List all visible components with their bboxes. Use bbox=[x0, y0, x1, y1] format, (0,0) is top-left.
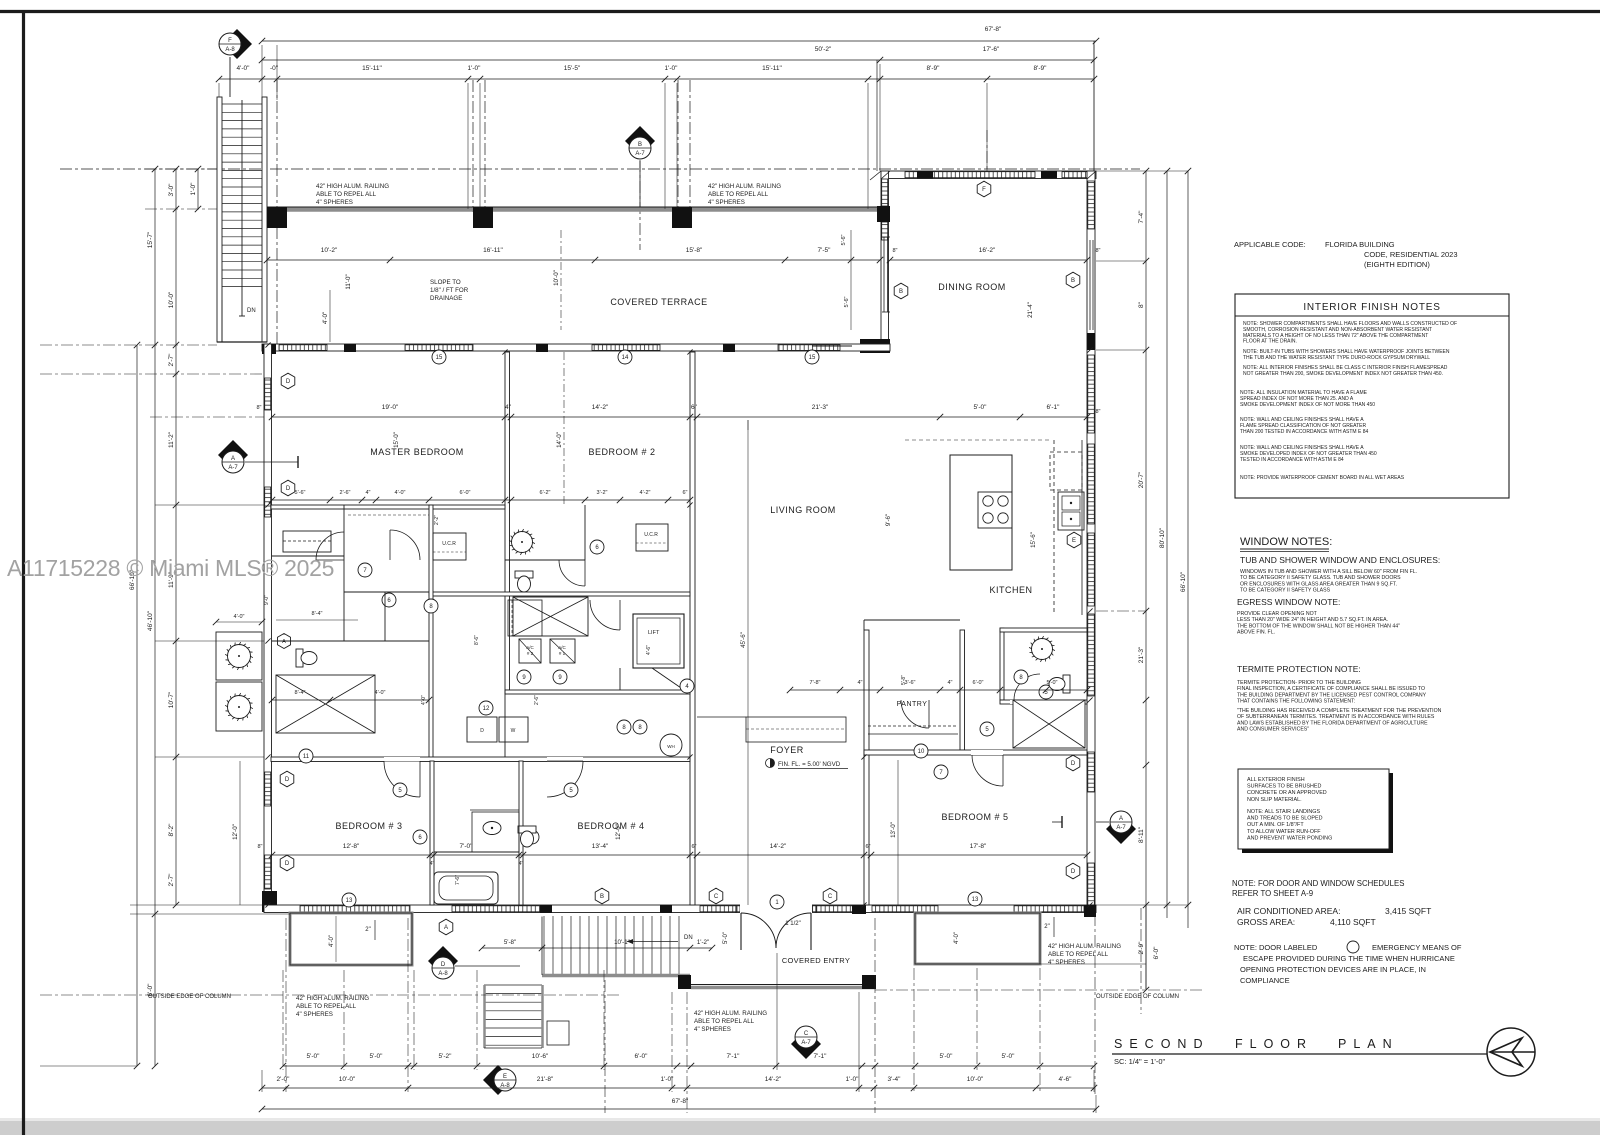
svg-text:42" HIGH ALUM. RAILING: 42" HIGH ALUM. RAILING bbox=[708, 183, 781, 190]
svg-text:67'-8": 67'-8" bbox=[672, 1098, 689, 1105]
living-kitchen counter return bbox=[863, 620, 865, 630]
svg-text:SURFACES TO BE BRUSHED: SURFACES TO BE BRUSHED bbox=[1247, 784, 1321, 790]
railing post 1 bbox=[267, 207, 287, 228]
svg-text:4,110 SQFT: 4,110 SQFT bbox=[1330, 917, 1376, 927]
svg-text:PLAN: PLAN bbox=[1338, 1037, 1399, 1051]
svg-text:TO ALLOW WATER RUN-OFF: TO ALLOW WATER RUN-OFF bbox=[1247, 829, 1321, 835]
svg-text:OUT A MIN. OF 1/8"/FT: OUT A MIN. OF 1/8"/FT bbox=[1247, 822, 1304, 828]
wall master/bedroom2 vertical bbox=[505, 352, 510, 690]
svg-text:8": 8" bbox=[1095, 248, 1100, 254]
right wall window thin section bbox=[1089, 240, 1091, 330]
lift shaft bbox=[633, 614, 684, 668]
svg-text:A/C: A/C bbox=[558, 645, 566, 650]
svg-text:8'-9": 8'-9" bbox=[1034, 65, 1048, 72]
kitchen window tag hex E bbox=[1067, 532, 1081, 548]
svg-text:15'-11": 15'-11" bbox=[362, 65, 382, 72]
svg-text:8": 8" bbox=[1138, 301, 1145, 308]
fin fl note bbox=[766, 759, 775, 768]
ucr closet 1 bbox=[433, 533, 466, 560]
svg-text:B: B bbox=[899, 289, 903, 295]
svg-text:1'-0": 1'-0" bbox=[846, 1076, 860, 1083]
wall bedroom2/living vertical bbox=[690, 352, 695, 905]
svg-text:PANTRY: PANTRY bbox=[897, 701, 928, 708]
svg-text:14'-2": 14'-2" bbox=[770, 843, 787, 850]
wall pantry/bed5 horizontal bbox=[864, 750, 1087, 755]
svg-text:1 1/2": 1 1/2" bbox=[785, 921, 800, 927]
svg-text:BEDROOM # 5: BEDROOM # 5 bbox=[941, 812, 1008, 822]
door arc bedroom 3 bbox=[384, 761, 420, 797]
svg-text:10'-0": 10'-0" bbox=[553, 270, 560, 286]
bath2 partition wall bbox=[584, 505, 586, 560]
bath2 toilet bbox=[515, 571, 533, 592]
bottom stair flight1 stringer bbox=[542, 974, 690, 978]
fans dim 4-0 bbox=[216, 621, 262, 623]
north arrow symbol bbox=[1487, 1028, 1535, 1076]
svg-text:B: B bbox=[638, 142, 642, 148]
svg-text:A-7: A-7 bbox=[635, 151, 645, 157]
svg-text:DN: DN bbox=[247, 308, 256, 314]
bed5 bath toilet bbox=[1049, 675, 1070, 693]
svg-text:12'-0": 12'-0" bbox=[615, 824, 622, 840]
svg-text:EMERGENCY MEANS OF: EMERGENCY MEANS OF bbox=[1372, 943, 1462, 952]
right wall black post bbox=[1087, 333, 1095, 350]
svg-text:8'-4": 8'-4" bbox=[295, 690, 306, 696]
right horizontal extension lines bbox=[1096, 170, 1188, 172]
svg-text:ABOVE FIN. FL.: ABOVE FIN. FL. bbox=[1237, 630, 1275, 636]
master suite door arc bbox=[316, 532, 344, 560]
svg-text:8": 8" bbox=[257, 844, 262, 850]
svg-text:# 1: # 1 bbox=[559, 651, 566, 656]
svg-text:MASTER BEDROOM: MASTER BEDROOM bbox=[370, 447, 464, 457]
svg-text:8'-6": 8'-6" bbox=[474, 635, 480, 645]
bath2 sink counter bbox=[508, 600, 542, 636]
wall bed5 bath horizontal top bbox=[1000, 628, 1087, 632]
svg-text:4'-0": 4'-0" bbox=[322, 312, 329, 324]
svg-text:4'-0": 4'-0" bbox=[237, 65, 251, 72]
secmark leader A right bbox=[1096, 821, 1109, 823]
svg-text:D: D bbox=[441, 962, 446, 968]
svg-text:A-7: A-7 bbox=[801, 1040, 811, 1046]
svg-text:6": 6" bbox=[865, 844, 870, 850]
svg-text:SECOND: SECOND bbox=[1114, 1037, 1209, 1051]
svg-text:7'-5": 7'-5" bbox=[818, 247, 832, 254]
covered entry door opening bbox=[740, 904, 812, 913]
stair bottom landing wall bbox=[217, 341, 267, 343]
svg-text:5'-0": 5'-0" bbox=[940, 1053, 954, 1060]
entry door tag circle 1 bbox=[770, 895, 784, 909]
svg-text:66'-10": 66'-10" bbox=[1180, 571, 1187, 592]
door arc bedroom 5 bbox=[972, 755, 1003, 786]
svg-text:TERMITE PROTECTION NOTE:: TERMITE PROTECTION NOTE: bbox=[1237, 664, 1361, 674]
grid centerline vertical x1094 bbox=[1093, 41, 1095, 171]
svg-text:4'-0": 4'-0" bbox=[395, 490, 406, 496]
svg-text:7'-1": 7'-1" bbox=[814, 1053, 828, 1060]
section mark C A-7 bottom bbox=[791, 1026, 821, 1059]
door arc hall lift bbox=[590, 600, 620, 630]
wall master bottom horizontal bbox=[271, 505, 505, 509]
wall bath middle horizontal bbox=[429, 592, 690, 596]
kitchen fridge dashed bbox=[1050, 452, 1082, 490]
svg-text:CODE, RESIDENTIAL 2023: CODE, RESIDENTIAL 2023 bbox=[1364, 250, 1458, 259]
svg-text:DN: DN bbox=[684, 935, 693, 941]
svg-text:8": 8" bbox=[892, 248, 897, 254]
svg-text:F: F bbox=[982, 187, 986, 193]
bottom wall posts bbox=[540, 905, 552, 913]
svg-text:THE BUILDING DEPARTMENT BY THE: THE BUILDING DEPARTMENT BY THE LICENSED … bbox=[1237, 692, 1427, 698]
bottom exterior wall bbox=[264, 905, 1096, 913]
svg-text:ABLE TO REPEL ALL: ABLE TO REPEL ALL bbox=[296, 1003, 357, 1010]
wall closet vertical x429 bbox=[429, 505, 433, 760]
circle tag 5 bed5 bbox=[1039, 685, 1053, 699]
svg-text:14'-2": 14'-2" bbox=[592, 404, 609, 411]
svg-text:ABLE TO REPEL ALL: ABLE TO REPEL ALL bbox=[708, 191, 769, 198]
svg-text:3'-2": 3'-2" bbox=[597, 490, 608, 496]
bath2 closet xbox bbox=[513, 597, 588, 636]
svg-text:5'-2": 5'-2" bbox=[439, 1053, 453, 1060]
bath34 sink bbox=[483, 822, 501, 835]
svg-text:4'-0": 4'-0" bbox=[234, 614, 245, 620]
left extension lines to wall bbox=[155, 504, 264, 506]
svg-text:8": 8" bbox=[256, 405, 261, 411]
svg-text:6'-0": 6'-0" bbox=[973, 680, 984, 686]
svg-text:A-7: A-7 bbox=[1116, 825, 1126, 831]
svg-text:"THE BUILDING HAS RECEIVED A C: "THE BUILDING HAS RECEIVED A COMPLETE TR… bbox=[1237, 708, 1442, 714]
circle tag 10 bbox=[914, 744, 928, 758]
circle tag 5 bed4 bbox=[564, 783, 578, 797]
svg-text:1'-0": 1'-0" bbox=[665, 65, 679, 72]
svg-text:21'-3": 21'-3" bbox=[812, 404, 829, 411]
sheet border top bbox=[0, 10, 1600, 13]
svg-text:3'-0": 3'-0" bbox=[168, 183, 175, 197]
svg-text:10'-0": 10'-0" bbox=[339, 1076, 356, 1083]
svg-text:F: F bbox=[228, 38, 232, 44]
svg-text:FLOOR: FLOOR bbox=[1235, 1037, 1313, 1051]
right dim 6-0 segment bbox=[1145, 905, 1147, 990]
svg-text:LIVING ROOM: LIVING ROOM bbox=[770, 505, 836, 515]
svg-text:4": 4" bbox=[430, 861, 435, 867]
svg-text:NOTE: DOOR LABELED: NOTE: DOOR LABELED bbox=[1234, 943, 1318, 952]
pantry shelves bbox=[868, 725, 958, 727]
terrace dim row bbox=[267, 259, 880, 261]
kitchen island bbox=[950, 455, 1012, 570]
svg-text:B: B bbox=[1071, 278, 1075, 284]
svg-text:2'-9": 2'-9" bbox=[1138, 941, 1145, 955]
svg-text:BEDROOM # 3: BEDROOM # 3 bbox=[335, 821, 402, 831]
svg-text:THAT CONTAINS THE FOLLOWING ST: THAT CONTAINS THE FOLLOWING STATEMENT: bbox=[1237, 699, 1355, 705]
svg-text:6'-0": 6'-0" bbox=[1153, 946, 1160, 960]
svg-text:5'-6": 5'-6" bbox=[844, 296, 850, 307]
door arc master bbox=[390, 530, 420, 560]
flight2 stringers bbox=[483, 985, 486, 1048]
svg-text:4" SPHERES: 4" SPHERES bbox=[708, 199, 745, 206]
svg-text:FINAL INSPECTION, A CERTIFICAT: FINAL INSPECTION, A CERTIFICATE OF COMPL… bbox=[1237, 686, 1425, 692]
svg-text:AND TREADS TO BE SLOPED: AND TREADS TO BE SLOPED bbox=[1247, 816, 1323, 822]
svg-text:BEDROOM # 4: BEDROOM # 4 bbox=[577, 821, 644, 831]
exterior finish shadow box bbox=[1242, 773, 1393, 853]
left dim col x137 bbox=[136, 345, 138, 1066]
door arc bedroom 4 bbox=[547, 761, 583, 797]
svg-text:50'-2": 50'-2" bbox=[815, 46, 832, 53]
svg-text:4'-0": 4'-0" bbox=[375, 690, 386, 696]
grid centerline vertical B x640 bbox=[639, 160, 641, 250]
svg-text:THE TUB AND THE WATER RESISTAN: THE TUB AND THE WATER RESISTANT TYPE DUR… bbox=[1243, 355, 1430, 361]
svg-text:5'-0": 5'-0" bbox=[723, 932, 729, 944]
svg-text:AND PREVENT WATER PONDING: AND PREVENT WATER PONDING bbox=[1247, 835, 1332, 841]
svg-text:CONCRETE OR AN APPROVED: CONCRETE OR AN APPROVED bbox=[1247, 790, 1327, 796]
secmark leader B bbox=[639, 161, 641, 207]
svg-text:17'-6": 17'-6" bbox=[983, 46, 1000, 53]
bed5 bath fan bbox=[1029, 636, 1055, 662]
circle tag 9 right bbox=[553, 670, 567, 684]
master suite closet wall vertical bbox=[343, 505, 345, 641]
scan bottom gray band bbox=[0, 1121, 1600, 1135]
small dim row y690 segment bbox=[790, 689, 1087, 691]
svg-text:14: 14 bbox=[622, 355, 629, 361]
right dim col x1146 bbox=[1145, 171, 1147, 990]
foyer closet partition bbox=[697, 716, 746, 718]
bed5 closet xbox bbox=[1013, 700, 1085, 748]
svg-text:5'-0": 5'-0" bbox=[974, 404, 988, 411]
svg-text:10: 10 bbox=[918, 749, 925, 755]
secmark leader A left bbox=[245, 461, 298, 463]
svg-text:42" HIGH ALUM. RAILING: 42" HIGH ALUM. RAILING bbox=[1048, 943, 1121, 950]
dining corner miter right bbox=[1087, 171, 1096, 179]
kitchen sink unit bbox=[1058, 492, 1084, 530]
svg-text:SC: 1/4" = 1'-0": SC: 1/4" = 1'-0" bbox=[1114, 1057, 1165, 1066]
svg-text:LESS THAN 20" WIDE 24" IN HEIG: LESS THAN 20" WIDE 24" IN HEIGHT AND 5.7… bbox=[1237, 617, 1388, 623]
svg-text:42" HIGH ALUM. RAILING: 42" HIGH ALUM. RAILING bbox=[296, 995, 369, 1002]
svg-text:2'-0": 2'-0" bbox=[277, 1076, 291, 1083]
svg-text:D: D bbox=[286, 486, 291, 492]
svg-text:7'-0": 7'-0" bbox=[460, 843, 474, 850]
bottom dim row 3 bbox=[262, 1108, 1096, 1110]
svg-text:D: D bbox=[480, 728, 484, 734]
svg-text:A/C: A/C bbox=[526, 645, 534, 650]
exterior AC fan unit 2 bbox=[216, 682, 262, 731]
svg-text:D: D bbox=[1071, 761, 1076, 767]
svg-text:1'-0": 1'-0" bbox=[190, 182, 197, 196]
circle tag 11 bbox=[299, 749, 313, 763]
kitchen counter dashed bbox=[1053, 440, 1055, 615]
svg-text:17'-8": 17'-8" bbox=[970, 843, 987, 850]
svg-text:D: D bbox=[1071, 869, 1076, 875]
dim row hall y757 bbox=[272, 699, 429, 701]
svg-text:4'-0": 4'-0" bbox=[329, 935, 335, 947]
top dimension row 50-2 17-6 bbox=[262, 59, 1094, 61]
svg-text:15'-0": 15'-0" bbox=[393, 432, 400, 448]
bath2 door arc bbox=[559, 560, 585, 586]
svg-text:16'-11": 16'-11" bbox=[483, 247, 503, 254]
svg-text:W: W bbox=[511, 728, 516, 734]
svg-text:LIFT: LIFT bbox=[648, 630, 660, 636]
svg-text:5'-0": 5'-0" bbox=[370, 1053, 384, 1060]
window tag 15 left bbox=[432, 350, 446, 364]
svg-text:E: E bbox=[503, 1074, 507, 1080]
svg-text:EGRESS WINDOW NOTE:: EGRESS WINDOW NOTE: bbox=[1237, 597, 1340, 607]
svg-text:15'-6": 15'-6" bbox=[1030, 532, 1037, 548]
left dim col x198 bbox=[197, 169, 199, 209]
exterior stair treads bbox=[222, 103, 262, 105]
svg-text:4": 4" bbox=[519, 861, 524, 867]
stair landing box bbox=[547, 1021, 569, 1045]
circle tag 8 bed4 bbox=[617, 720, 631, 734]
circle tag 7 bbox=[358, 563, 372, 577]
top dim extension lines bbox=[261, 45, 263, 100]
circle tag 6 a bbox=[382, 593, 396, 607]
svg-text:1'-0": 1'-0" bbox=[468, 65, 482, 72]
svg-text:4'-6": 4'-6" bbox=[1059, 1076, 1073, 1083]
svg-text:4'-2": 4'-2" bbox=[640, 490, 651, 496]
svg-text:KITCHEN: KITCHEN bbox=[989, 585, 1032, 595]
svg-text:OUTSIDE EDGE OF COLUMN: OUTSIDE EDGE OF COLUMN bbox=[148, 994, 231, 1000]
circle tag 6 b bbox=[590, 540, 604, 554]
svg-text:WINDOWS IN TUB AND SHOWER WITH: WINDOWS IN TUB AND SHOWER WITH A SILL BE… bbox=[1240, 569, 1417, 575]
kitchen upper dash cabinets bbox=[905, 439, 1050, 441]
svg-text:13'-0": 13'-0" bbox=[890, 822, 897, 838]
svg-text:AND LAWS ESTABLISHED BY THE FL: AND LAWS ESTABLISHED BY THE FLORIDA DEPA… bbox=[1237, 720, 1428, 726]
left wall window tags bbox=[281, 373, 295, 389]
svg-text:13: 13 bbox=[972, 897, 979, 903]
svg-text:SLOPE TO: SLOPE TO bbox=[430, 279, 461, 286]
bottom extension verticals bbox=[282, 970, 284, 1070]
svg-text:TESTED IN ACCORDANCE WITH ASTM: TESTED IN ACCORDANCE WITH ASTM E 84 bbox=[1240, 457, 1344, 463]
stair newel post black bbox=[678, 975, 691, 989]
svg-text:A: A bbox=[1119, 816, 1123, 822]
master toilet room wall bbox=[344, 591, 429, 593]
svg-text:11'-0": 11'-0" bbox=[345, 274, 352, 289]
grid centerline vertical x987 bbox=[986, 130, 988, 171]
svg-text:6": 6" bbox=[682, 490, 687, 496]
svg-text:FIN. FL. = 5.00' NGVD: FIN. FL. = 5.00' NGVD bbox=[778, 761, 841, 768]
svg-text:APPLICABLE CODE:: APPLICABLE CODE: bbox=[1234, 240, 1306, 249]
right exterior wall bbox=[1087, 171, 1095, 912]
entry railing post right bbox=[862, 975, 876, 989]
wall foyer/bed5 vertical bbox=[864, 630, 869, 905]
circle tag 6 c bbox=[413, 830, 427, 844]
right wall window tags bbox=[1066, 755, 1080, 771]
svg-text:A: A bbox=[231, 456, 235, 462]
svg-text:15: 15 bbox=[809, 355, 816, 361]
bedroom34 dim row bbox=[272, 854, 1087, 856]
svg-text:4" SPHERES: 4" SPHERES bbox=[296, 1011, 333, 1018]
svg-text:6'-1": 6'-1" bbox=[1047, 404, 1061, 411]
svg-text:NOT GREATER THAN 200, SMOKE DE: NOT GREATER THAN 200, SMOKE DEVELOPMENT … bbox=[1243, 371, 1443, 377]
dining top wall post right bbox=[1041, 171, 1057, 179]
svg-text:80'-10": 80'-10" bbox=[1159, 527, 1166, 548]
svg-text:NOTE: PROVIDE WATERPROOF CEME: NOTE: PROVIDE WATERPROOF CEMENT BOARD IN… bbox=[1240, 475, 1405, 481]
svg-text:BEDROOM # 2: BEDROOM # 2 bbox=[588, 447, 655, 457]
svg-text:C: C bbox=[828, 894, 833, 900]
grid centerline vertical x678 bbox=[677, 80, 679, 212]
left dim col x155 bbox=[154, 169, 156, 1066]
secmark leader F bbox=[229, 57, 231, 97]
svg-text:2": 2" bbox=[1044, 924, 1049, 930]
svg-text:FLORIDA BUILDING: FLORIDA BUILDING bbox=[1325, 240, 1395, 249]
circle tag 12 bbox=[479, 701, 493, 715]
svg-text:14'-0": 14'-0" bbox=[556, 432, 563, 448]
circle tag 5 pantry bbox=[980, 722, 994, 736]
svg-text:67'-8": 67'-8" bbox=[985, 26, 1002, 33]
svg-text:D: D bbox=[285, 861, 290, 867]
svg-text:14'-2": 14'-2" bbox=[765, 1076, 782, 1083]
svg-text:4": 4" bbox=[947, 680, 952, 686]
svg-text:7'-8": 7'-8" bbox=[810, 680, 821, 686]
dining corner miter left bbox=[881, 171, 890, 179]
svg-text:ALL EXTERIOR FINISH: ALL EXTERIOR FINISH bbox=[1247, 777, 1305, 783]
svg-text:ABLE TO REPEL ALL: ABLE TO REPEL ALL bbox=[694, 1018, 755, 1025]
circle tag 8 mid bbox=[424, 599, 438, 613]
wall bed5 bath vertical bbox=[1000, 628, 1004, 700]
svg-text:15: 15 bbox=[436, 355, 443, 361]
svg-text:REFER TO SHEET A-9: REFER TO SHEET A-9 bbox=[1232, 889, 1313, 898]
svg-text:15'-5": 15'-5" bbox=[564, 65, 581, 72]
kitchen stove bbox=[978, 492, 1012, 528]
svg-text:A-7: A-7 bbox=[228, 465, 238, 471]
circle tag 4 bbox=[680, 679, 694, 693]
grid centerline F horizontal bbox=[60, 168, 1140, 170]
svg-text:7'-6": 7'-6" bbox=[455, 875, 461, 885]
left balcony bbox=[290, 913, 412, 965]
svg-text:9'-6": 9'-6" bbox=[885, 514, 892, 526]
dining room bottom-left corner post bbox=[860, 339, 890, 353]
svg-text:21'-8": 21'-8" bbox=[537, 1076, 554, 1083]
svg-text:2": 2" bbox=[365, 927, 370, 933]
svg-text:6": 6" bbox=[691, 404, 698, 411]
svg-text:10'-0": 10'-0" bbox=[168, 291, 175, 308]
wall bath tub alcove bbox=[434, 851, 519, 853]
bath34 sink counter bbox=[472, 812, 519, 852]
railing post 3 bbox=[672, 207, 692, 228]
svg-text:4" SPHERES: 4" SPHERES bbox=[1048, 959, 1085, 966]
svg-text:16'-2": 16'-2" bbox=[979, 247, 996, 254]
svg-text:15'-8": 15'-8" bbox=[686, 247, 703, 254]
svg-text:42" HIGH ALUM. RAILING: 42" HIGH ALUM. RAILING bbox=[316, 183, 389, 190]
svg-text:TUB AND SHOWER WINDOW AND ENCL: TUB AND SHOWER WINDOW AND ENCLOSURES: bbox=[1240, 555, 1440, 565]
svg-text:7'-4": 7'-4" bbox=[1138, 210, 1145, 224]
svg-text:6'-0": 6'-0" bbox=[460, 490, 471, 496]
svg-text:2'-6": 2'-6" bbox=[340, 490, 351, 496]
outside edge of column note left bbox=[40, 994, 620, 996]
svg-text:8'-11": 8'-11" bbox=[1138, 826, 1145, 843]
svg-text:2'-7": 2'-7" bbox=[168, 873, 175, 887]
bedroom north wall posts bbox=[262, 344, 276, 354]
svg-text:D: D bbox=[286, 379, 291, 385]
svg-text:5'-0": 5'-0" bbox=[1002, 1053, 1016, 1060]
svg-text:TO BE CATEGORY II SAFETY GLASS: TO BE CATEGORY II SAFETY GLASS. TUB AND … bbox=[1240, 575, 1401, 581]
sheet border left bbox=[22, 10, 25, 1135]
right dim col x1188 bbox=[1187, 171, 1189, 905]
wall hall horizontal y690 bbox=[505, 690, 690, 694]
master bath tag hex A bbox=[278, 634, 291, 649]
grid centerline vertical x485 bbox=[484, 80, 486, 212]
svg-text:DRAINAGE: DRAINAGE bbox=[430, 295, 462, 302]
bedroom north wall bbox=[262, 344, 890, 351]
svg-text:AIR CONDITIONED AREA:: AIR CONDITIONED AREA: bbox=[1237, 906, 1340, 916]
wall bed3/bath vertical bbox=[430, 761, 434, 905]
master closet box bbox=[283, 531, 331, 552]
svg-text:C: C bbox=[714, 894, 719, 900]
svg-text:45'-6": 45'-6" bbox=[740, 632, 747, 648]
svg-text:6": 6" bbox=[691, 844, 696, 850]
section mark A A-7 right bbox=[1106, 811, 1136, 844]
svg-text:OR ENCLOSURES WITH GLASS AREA: OR ENCLOSURES WITH GLASS AREA GREATER TH… bbox=[1240, 581, 1397, 587]
wall bath/bed4 vertical bbox=[519, 761, 523, 905]
svg-text:NON SLIP MATERIAL.: NON SLIP MATERIAL. bbox=[1247, 797, 1302, 803]
svg-text:D: D bbox=[285, 777, 290, 783]
bottom wall window tags bbox=[595, 888, 609, 904]
svg-text:ESCAPE PROVIDED DURING THE TIM: ESCAPE PROVIDED DURING THE TIME WHEN HUR… bbox=[1243, 954, 1455, 963]
svg-text:B: B bbox=[600, 894, 604, 900]
